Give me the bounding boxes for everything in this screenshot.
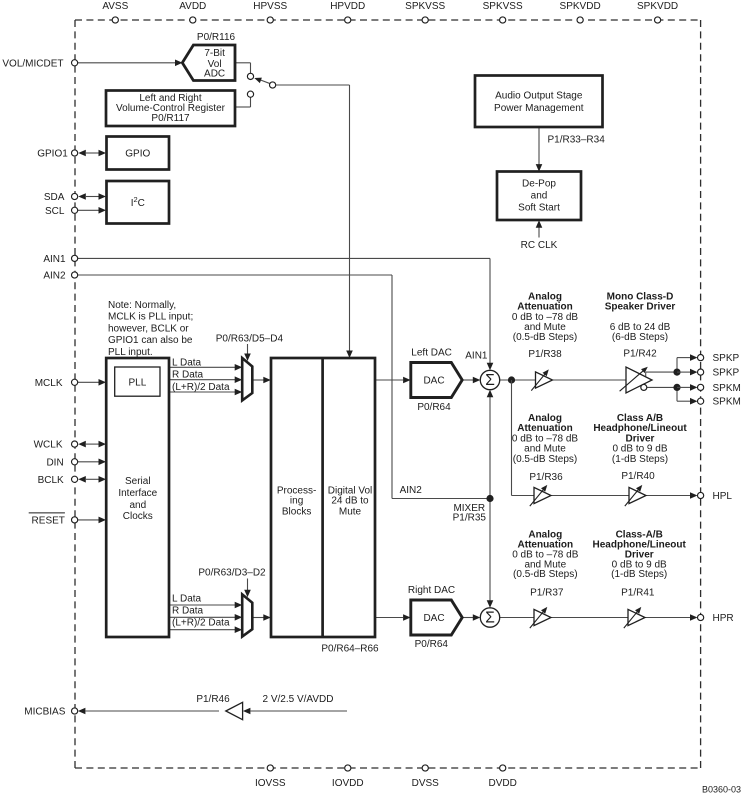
svg-text:Attenuation: Attenuation [517,423,573,434]
svg-text:Blocks: Blocks [282,507,311,518]
svg-text:VOL/MICDET: VOL/MICDET [2,58,63,69]
svg-text:2 V/2.5 V/AVDD: 2 V/2.5 V/AVDD [263,694,334,705]
svg-text:GPIO1 can also be: GPIO1 can also be [108,335,193,346]
svg-text:P0/R64–R66: P0/R64–R66 [321,644,379,655]
svg-text:(L+R)/2 Data: (L+R)/2 Data [172,382,230,393]
svg-text:PLL input.: PLL input. [108,347,153,358]
svg-text:DVDD: DVDD [489,778,517,789]
svg-text:Σ: Σ [485,372,495,389]
svg-text:P0/R117: P0/R117 [151,113,190,124]
svg-text:I2C: I2C [131,195,145,209]
svg-text:AIN2: AIN2 [400,485,423,496]
svg-text:Left DAC: Left DAC [411,348,452,359]
svg-text:IOVSS: IOVSS [255,778,286,789]
svg-text:L Data: L Data [172,594,202,605]
svg-text:RESET: RESET [32,515,65,526]
svg-text:WCLK: WCLK [34,440,63,451]
svg-text:SPKM: SPKM [713,383,741,394]
svg-text:24 dB to: 24 dB to [331,496,369,507]
svg-text:and: and [531,190,548,201]
svg-text:AIN1: AIN1 [465,351,488,362]
svg-text:however, BCLK or: however, BCLK or [108,323,189,334]
svg-text:P1/R41: P1/R41 [621,588,655,599]
svg-text:PLL: PLL [129,378,147,389]
svg-text:(1-dB Steps): (1-dB Steps) [612,454,668,465]
svg-text:(0.5-dB Steps): (0.5-dB Steps) [513,332,577,343]
svg-text:HPVDD: HPVDD [330,1,365,12]
svg-text:AVSS: AVSS [102,1,128,12]
svg-text:RC CLK: RC CLK [521,240,558,251]
svg-text:HPVSS: HPVSS [253,1,287,12]
svg-text:and: and [129,500,146,511]
svg-text:P0/R64: P0/R64 [415,639,449,650]
svg-text:Right DAC: Right DAC [408,585,455,596]
svg-text:P1/R36: P1/R36 [529,472,563,483]
svg-text:(L+R)/2 Data: (L+R)/2 Data [172,618,230,629]
svg-text:P1/R35: P1/R35 [453,513,487,524]
svg-text:P0/R63/D3–D2: P0/R63/D3–D2 [198,568,266,579]
svg-text:SCL: SCL [45,206,65,217]
svg-text:Note: Normally,: Note: Normally, [108,300,176,311]
svg-text:(0.5-dB Steps): (0.5-dB Steps) [513,569,577,580]
svg-text:Soft Start: Soft Start [518,202,560,213]
svg-text:P1/R46: P1/R46 [196,694,230,705]
svg-text:DVSS: DVSS [412,778,440,789]
svg-text:SPKVDD: SPKVDD [560,1,601,12]
svg-text:7-Bit: 7-Bit [204,48,225,59]
svg-text:SPKP: SPKP [713,353,740,364]
svg-text:P1/R40: P1/R40 [621,471,655,482]
svg-text:P1/R38: P1/R38 [528,349,562,360]
svg-text:DIN: DIN [46,457,63,468]
svg-text:ADC: ADC [204,69,225,80]
svg-text:P0/R63/D5–D4: P0/R63/D5–D4 [216,333,284,344]
svg-text:(0.5-dB Steps): (0.5-dB Steps) [513,454,577,465]
svg-text:DAC: DAC [423,613,444,624]
svg-text:Speaker Driver: Speaker Driver [605,302,676,313]
svg-text:P0/R116: P0/R116 [197,32,236,43]
svg-text:SPKVSS: SPKVSS [405,1,445,12]
svg-text:P1/R37: P1/R37 [530,588,564,599]
svg-text:Attenuation: Attenuation [517,302,573,313]
svg-text:Audio Output Stage: Audio Output Stage [495,90,583,101]
svg-text:AIN2: AIN2 [43,271,66,282]
svg-text:B0360-03: B0360-03 [702,784,741,794]
svg-text:L Data: L Data [172,357,202,368]
svg-text:HPR: HPR [713,613,734,624]
svg-text:Clocks: Clocks [123,511,153,522]
svg-text:P1/R33–R34: P1/R33–R34 [548,135,606,146]
svg-text:HPL: HPL [713,491,733,502]
svg-text:Σ: Σ [485,610,495,627]
svg-text:Interface: Interface [118,488,157,499]
svg-text:SPKP: SPKP [713,368,740,379]
svg-text:MICBIAS: MICBIAS [24,707,65,718]
svg-text:(1-dB Steps): (1-dB Steps) [611,569,667,580]
svg-text:AVDD: AVDD [179,1,206,12]
svg-text:DAC: DAC [423,376,444,387]
svg-text:MCLK is PLL input;: MCLK is PLL input; [108,312,193,323]
svg-text:MCLK: MCLK [35,378,63,389]
svg-text:P1/R42: P1/R42 [623,349,657,360]
svg-text:(6-dB Steps): (6-dB Steps) [612,332,668,343]
svg-text:SDA: SDA [44,192,65,203]
svg-text:SPKM: SPKM [713,397,741,408]
svg-text:GPIO1: GPIO1 [37,149,68,160]
svg-text:Serial: Serial [125,476,151,487]
svg-text:SPKVSS: SPKVSS [483,1,523,12]
svg-text:GPIO: GPIO [125,148,150,159]
svg-text:Power Management: Power Management [494,103,584,114]
svg-text:ing: ing [290,496,303,507]
svg-text:De-Pop: De-Pop [522,179,556,190]
svg-text:SPKVDD: SPKVDD [637,1,678,12]
svg-text:R Data: R Data [172,370,204,381]
svg-text:P0/R64: P0/R64 [417,402,451,413]
svg-text:Mute: Mute [339,507,362,518]
svg-text:R Data: R Data [172,606,204,617]
svg-text:AIN1: AIN1 [43,254,66,265]
svg-text:Headphone/Lineout: Headphone/Lineout [593,423,687,434]
svg-text:BCLK: BCLK [38,475,64,486]
svg-text:IOVDD: IOVDD [332,778,364,789]
